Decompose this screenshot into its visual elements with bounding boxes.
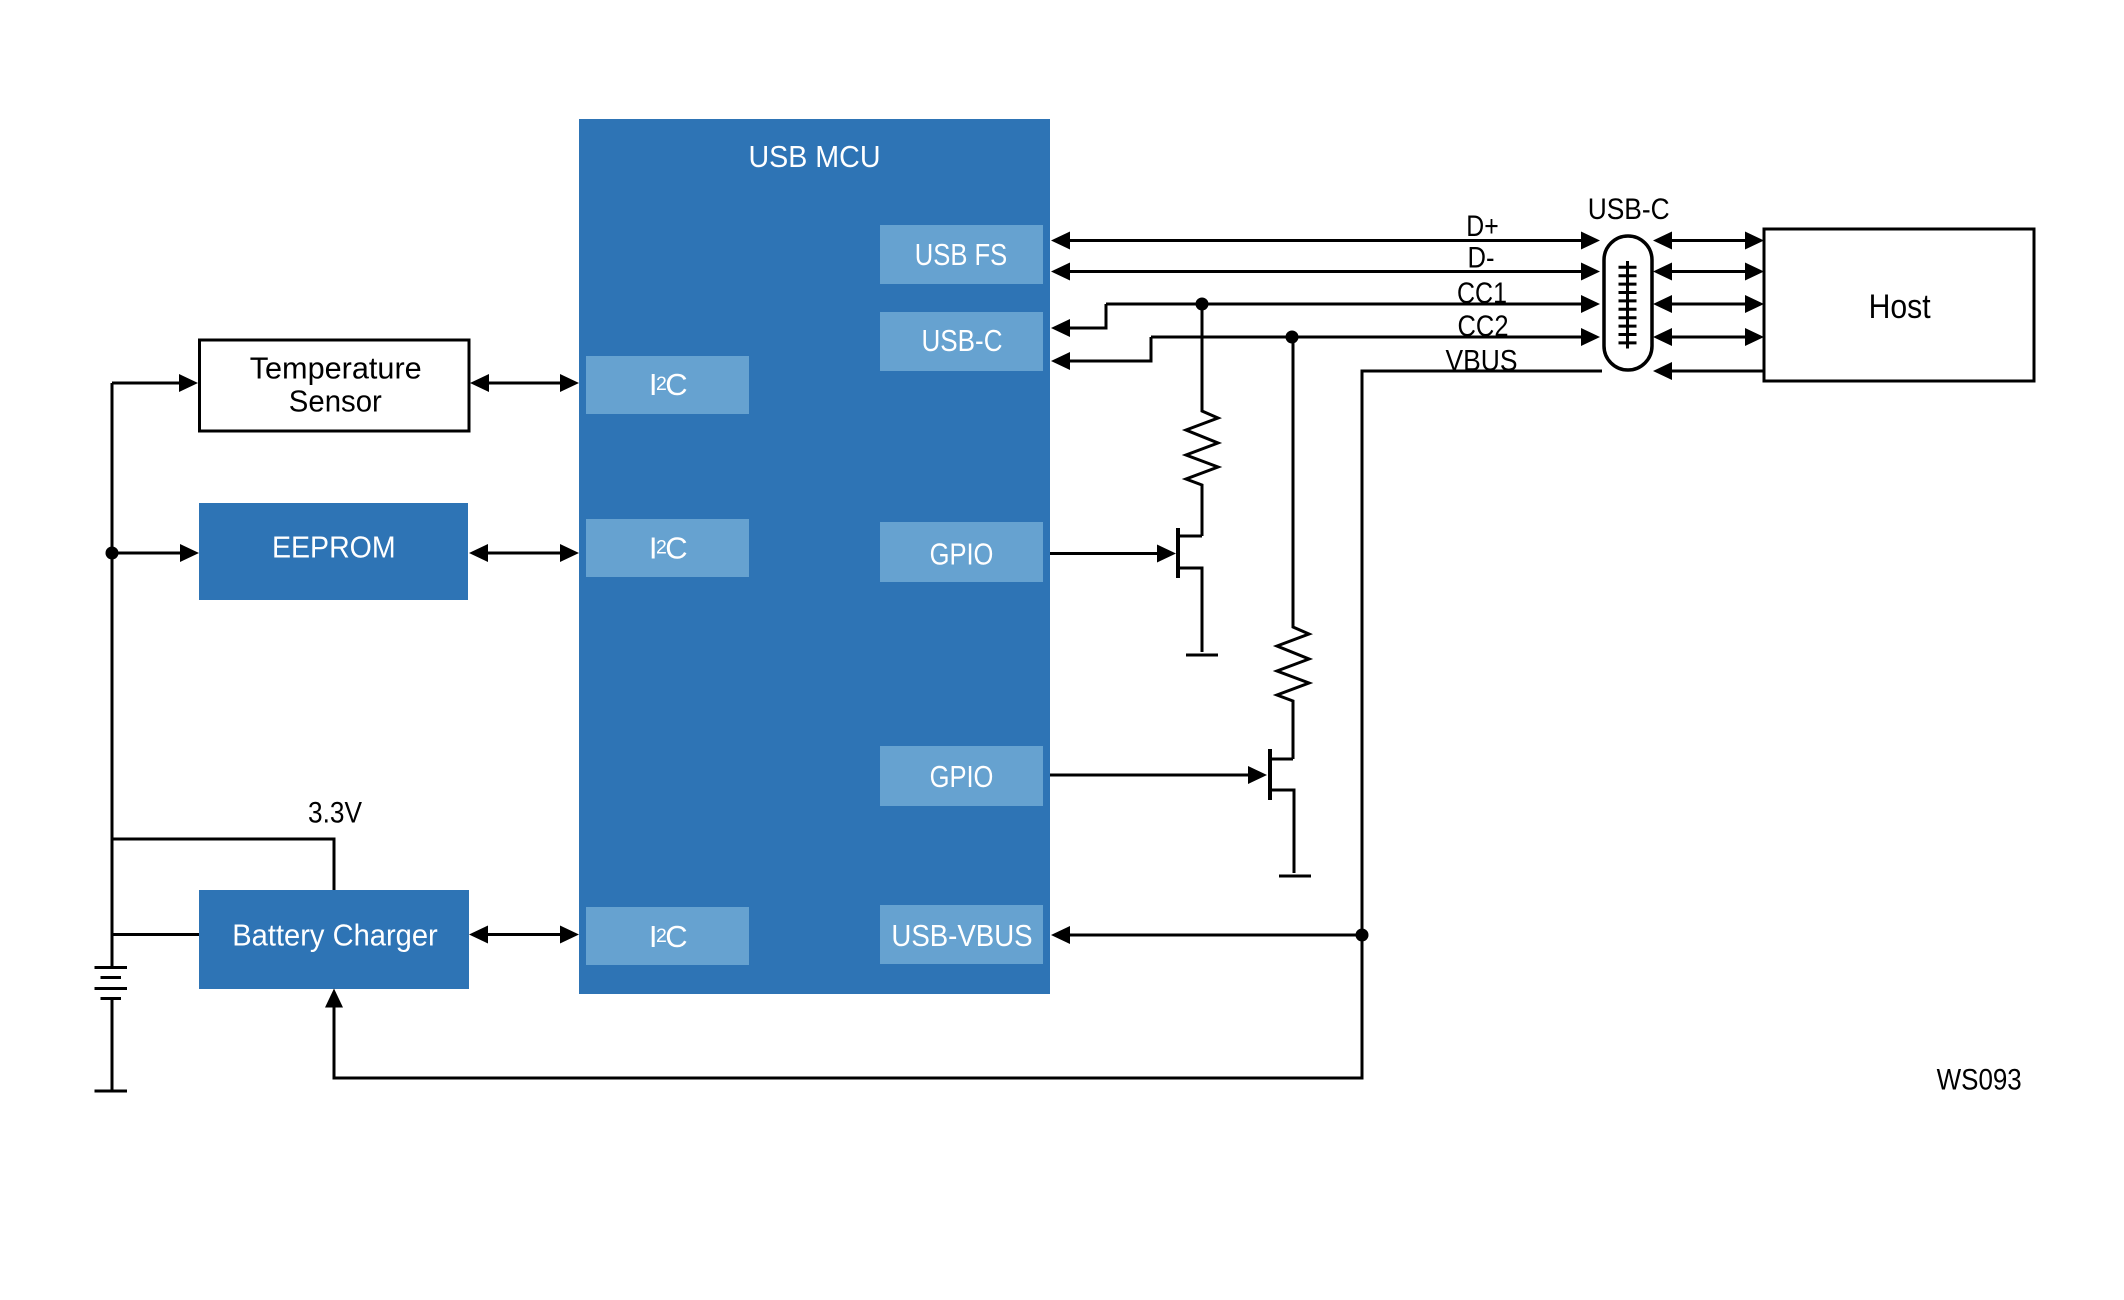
wire connector to Host row2	[1669, 270, 1748, 273]
arrowhead USB-VBUS into MCU	[1051, 926, 1070, 944]
port block USB-VBUS	[880, 905, 1043, 964]
wire CC1 elbow into MCU	[1067, 304, 1106, 328]
node VBUS junction dot	[1356, 929, 1369, 942]
battery BT1 top lead	[111, 935, 114, 968]
double arrow EEPROM to I2C	[485, 552, 563, 555]
arrowhead into EEPROM	[180, 544, 199, 562]
block Battery Charger	[199, 890, 469, 989]
arrowhead CC1 into connector	[1581, 295, 1600, 313]
wire connector to Host row3	[1669, 303, 1748, 306]
arrowhead row3 into connector	[1653, 295, 1672, 313]
arrowhead VBUS into connector	[1653, 362, 1672, 380]
svg-text:USB MCU: USB MCU	[749, 139, 881, 174]
port block GPIO 2	[880, 746, 1043, 806]
double arrow Battery Charger to I2C	[485, 933, 563, 936]
arrowhead into MCU I2C1	[560, 374, 579, 392]
port block I2C 2	[586, 519, 749, 577]
arrowhead CC2 into USB-C port	[1051, 352, 1070, 370]
svg-text:D+: D+	[1466, 210, 1498, 243]
arrowhead CC1 into USB-C port	[1051, 319, 1070, 337]
connector J1 pin stack	[1619, 261, 1637, 349]
block Temperature Sensor	[200, 340, 470, 431]
arrowhead into MCU I2C2	[560, 544, 579, 562]
wire VBUS horizontal	[334, 371, 1602, 1078]
transistor Q2 drain lead	[1270, 758, 1293, 761]
resistor R1	[1186, 304, 1218, 536]
svg-text:USB-C: USB-C	[922, 323, 1003, 358]
arrowhead D+ into USB FS	[1051, 232, 1070, 250]
port block GPIO 1	[880, 522, 1043, 582]
arrowhead D- into connector	[1581, 263, 1600, 281]
svg-text:GPIO: GPIO	[930, 759, 994, 794]
arrowhead row1 into Host	[1745, 232, 1764, 250]
svg-text:USB-VBUS: USB-VBUS	[891, 918, 1032, 953]
arrowhead GPIO2 gate	[1248, 766, 1267, 784]
block EEPROM	[199, 503, 468, 600]
node CC1 junction dot	[1196, 298, 1209, 311]
wire battery to Battery Charger	[112, 933, 199, 936]
arrowhead CC2 into connector	[1581, 328, 1600, 346]
port block USB FS	[880, 225, 1043, 284]
svg-text:USB FS: USB FS	[915, 237, 1007, 272]
battery BT1 bottom terminal bar	[95, 1090, 128, 1093]
svg-text:I2C: I2C	[649, 367, 687, 402]
transistor Q1 source terminal bar	[1186, 654, 1218, 657]
transistor Q2 source lead	[1270, 790, 1294, 873]
svg-text:D-: D-	[1468, 242, 1495, 275]
arrowhead into Battery Charger right	[469, 926, 488, 944]
transistor Q1 channel bar	[1176, 528, 1180, 578]
wire 3.3V branch	[112, 839, 334, 890]
wire left rail	[111, 383, 114, 935]
arrowhead row2 into Host	[1745, 263, 1764, 281]
wire GPIO2 gate	[1050, 774, 1251, 777]
resistor R2	[1277, 337, 1309, 759]
svg-text:Host: Host	[1869, 288, 1931, 326]
arrowhead D- into USB FS	[1051, 263, 1070, 281]
battery BT1 bottom lead	[111, 999, 114, 1092]
wire CC2 elbow into MCU	[1067, 337, 1151, 361]
wire into EEPROM	[112, 552, 182, 555]
connector J1 USB-C stadium outline	[1604, 236, 1652, 370]
svg-text:CC1: CC1	[1457, 277, 1507, 310]
svg-text:EEPROM: EEPROM	[272, 530, 396, 565]
node EEPROM rail junction dot	[106, 547, 119, 560]
battery BT1 plate long 1	[95, 966, 128, 969]
port block I2C 1	[586, 356, 749, 414]
wire into Temperature Sensor	[112, 382, 182, 385]
arrowhead into Temperature Sensor right	[470, 374, 489, 392]
svg-text:GPIO: GPIO	[930, 537, 994, 572]
transistor Q1 drain lead	[1178, 535, 1202, 538]
wire GPIO1 gate	[1050, 552, 1160, 555]
arrowhead row4 into connector	[1653, 328, 1672, 346]
arrowhead GPIO1 gate	[1157, 545, 1176, 563]
transistor Q1 source lead	[1178, 568, 1202, 652]
svg-text:I2C: I2C	[649, 531, 687, 566]
battery BT1 plate short 2	[101, 997, 122, 1000]
arrowhead into MCU I2C3	[560, 926, 579, 944]
wire connector to Host row1	[1669, 239, 1748, 242]
svg-text:I2C: I2C	[649, 919, 687, 954]
arrowhead row2 into connector	[1653, 263, 1672, 281]
transistor Q2 source terminal bar	[1279, 875, 1311, 878]
svg-text:Sensor: Sensor	[289, 384, 382, 419]
arrowhead into EEPROM right	[469, 544, 488, 562]
port block I2C 3	[586, 907, 749, 965]
svg-text:USB-C: USB-C	[1588, 193, 1670, 226]
svg-text:Battery Charger: Battery Charger	[232, 918, 438, 953]
MCU block U1 body	[579, 119, 1050, 994]
arrowhead row4 into Host	[1745, 328, 1764, 346]
arrowhead VBUS into Battery Charger	[325, 989, 343, 1008]
battery BT1 plate short 1	[101, 976, 122, 979]
port block USB-C (MCU)	[880, 312, 1043, 371]
arrowhead into Temperature Sensor	[179, 374, 198, 392]
double arrow Temperature Sensor to I2C	[486, 382, 563, 385]
svg-text:VBUS: VBUS	[1446, 345, 1518, 378]
arrowhead row1 into connector	[1653, 232, 1672, 250]
svg-text:CC2: CC2	[1458, 310, 1509, 343]
arrowhead D+ into connector	[1581, 232, 1600, 250]
wire D- MCU to connector	[1067, 270, 1584, 273]
battery BT1 plate long 2	[95, 987, 128, 990]
wire USB-VBUS into MCU	[1067, 934, 1362, 937]
wire D+ MCU to connector	[1067, 239, 1584, 242]
svg-text:Temperature: Temperature	[250, 351, 422, 386]
wire VBUS Host to connector	[1669, 370, 1764, 373]
svg-text:3.3V: 3.3V	[308, 797, 362, 830]
transistor Q2 channel bar	[1268, 749, 1272, 800]
svg-text:WS093: WS093	[1937, 1064, 2022, 1097]
arrowhead row3 into Host	[1745, 295, 1764, 313]
wire connector to Host row4	[1669, 336, 1748, 339]
block Host	[1764, 229, 2034, 381]
node CC2 junction dot	[1286, 331, 1299, 344]
wire CC2 connector side	[1151, 336, 1584, 339]
wire CC1 connector side	[1106, 303, 1584, 306]
